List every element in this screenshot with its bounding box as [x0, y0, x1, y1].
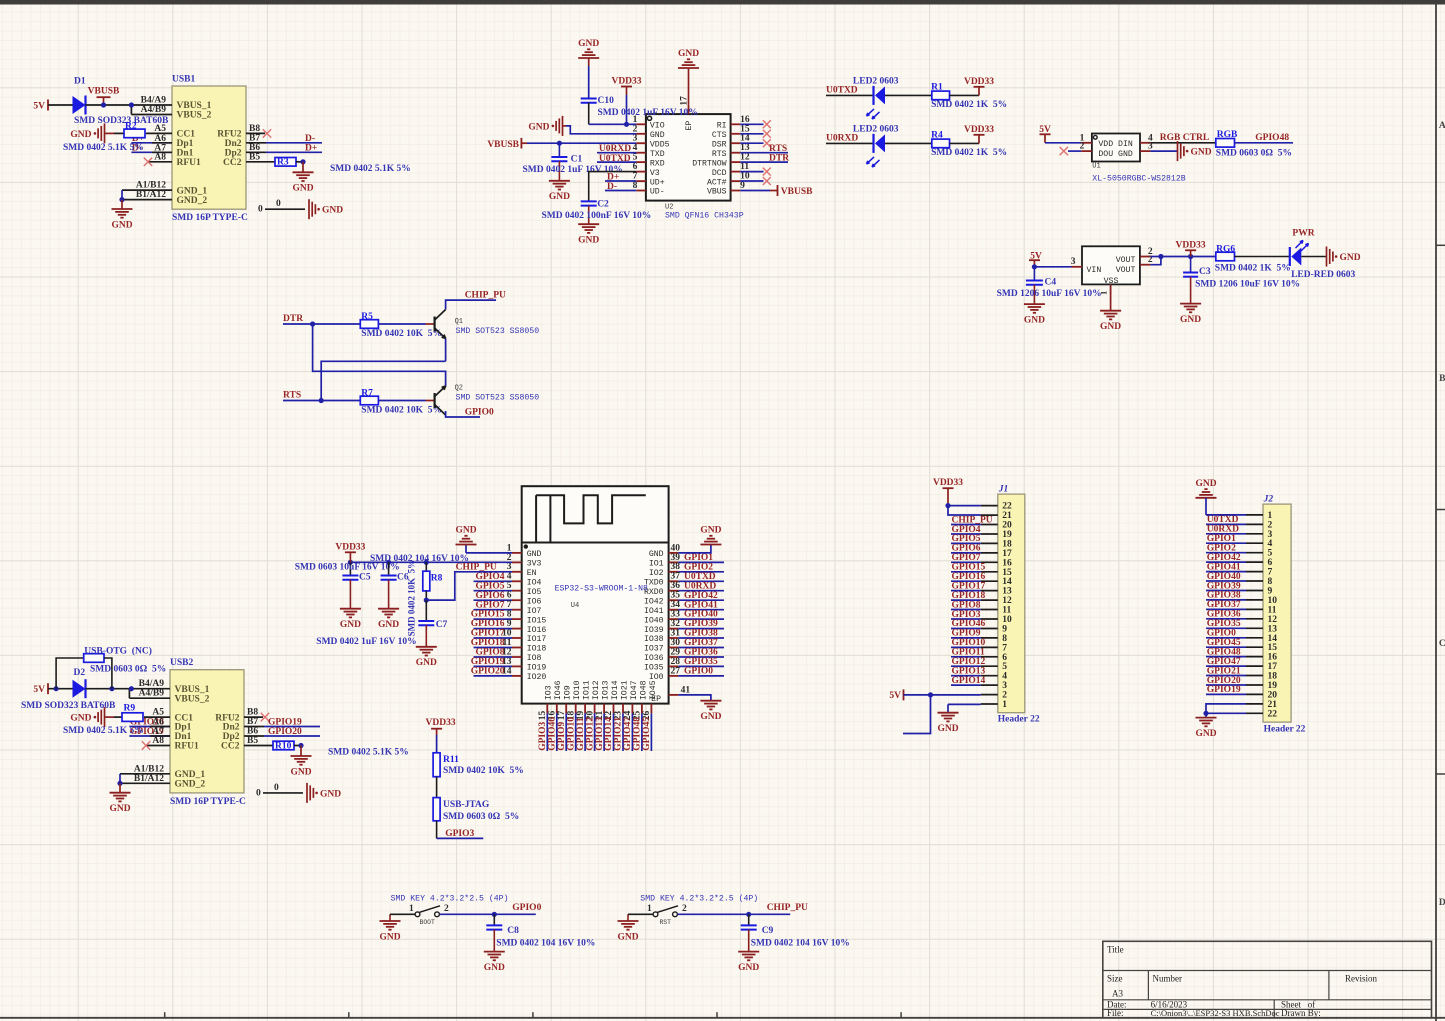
svg-text:1: 1 [507, 543, 512, 553]
svg-text:VDD33: VDD33 [611, 77, 641, 87]
svg-text:LED2 0603: LED2 0603 [853, 124, 899, 134]
svg-text:IO18: IO18 [527, 645, 547, 654]
svg-text:GPIO47: GPIO47 [623, 717, 633, 751]
svg-text:SMD 0402 1K 5%: SMD 0402 1K 5% [1215, 264, 1291, 274]
svg-text:SMD SOT523 SS8050: SMD SOT523 SS8050 [456, 327, 540, 336]
svg-text:9: 9 [740, 181, 745, 191]
svg-text:0: 0 [276, 199, 281, 209]
svg-text:GPIO48: GPIO48 [1255, 133, 1289, 143]
svg-text:SMD 0402 1K 5%: SMD 0402 1K 5% [931, 100, 1007, 110]
svg-text:GPIO15: GPIO15 [471, 610, 505, 620]
svg-text:A6: A6 [154, 134, 166, 144]
svg-text:GPIO42: GPIO42 [684, 591, 718, 601]
svg-text:0: 0 [256, 788, 261, 798]
svg-text:A4/B9: A4/B9 [139, 689, 165, 699]
svg-text:GND_2: GND_2 [177, 196, 208, 206]
svg-text:GPIO20: GPIO20 [471, 667, 505, 677]
svg-text:2: 2 [682, 904, 687, 914]
svg-text:Dn2: Dn2 [223, 723, 240, 733]
svg-text:IO9: IO9 [564, 685, 573, 700]
svg-text:GPIO37: GPIO37 [684, 638, 718, 648]
svg-text:1: 1 [1268, 511, 1273, 521]
svg-text:12: 12 [740, 153, 750, 163]
svg-text:IO19: IO19 [527, 664, 547, 673]
svg-text:GND: GND [1100, 322, 1121, 332]
svg-text:SMD 0603 0Ω 5%: SMD 0603 0Ω 5% [90, 665, 166, 675]
svg-text:GPIO9: GPIO9 [557, 722, 567, 751]
svg-text:IO11: IO11 [583, 680, 592, 700]
svg-text:SMD SOD323 BAT60B: SMD SOD323 BAT60B [21, 701, 116, 711]
svg-text:B1/A12: B1/A12 [136, 190, 166, 200]
svg-text:IO39: IO39 [644, 626, 664, 635]
svg-text:1: 1 [409, 904, 414, 914]
svg-text:GPIO0: GPIO0 [684, 667, 713, 677]
svg-text:GND: GND [378, 620, 399, 630]
svg-text:SMD QFN16 CH343P: SMD QFN16 CH343P [665, 212, 744, 221]
svg-text:GPIO19: GPIO19 [1207, 685, 1241, 695]
svg-text:ACT#: ACT# [707, 178, 727, 187]
svg-text:J2: J2 [1263, 495, 1274, 505]
svg-text:22: 22 [1002, 502, 1012, 512]
svg-text:5V: 5V [33, 685, 45, 695]
svg-text:B7: B7 [247, 717, 258, 727]
svg-text:GND: GND [1340, 253, 1361, 263]
svg-text:Dp1: Dp1 [177, 139, 194, 149]
svg-text:11: 11 [1002, 606, 1011, 616]
svg-text:Number: Number [1153, 974, 1183, 984]
svg-text:XL-5050RGBC-WS2812B: XL-5050RGBC-WS2812B [1092, 175, 1185, 184]
svg-text:SMD KEY 4.2*3.2*2.5 (4P): SMD KEY 4.2*3.2*2.5 (4P) [640, 894, 758, 904]
svg-text:RFU1: RFU1 [177, 158, 202, 168]
svg-text:CHIP_PU: CHIP_PU [465, 291, 506, 301]
svg-text:U0TXD: U0TXD [1207, 515, 1239, 525]
svg-text:VBUS_2: VBUS_2 [177, 111, 212, 121]
svg-text:22: 22 [1268, 709, 1278, 719]
svg-text:CC2: CC2 [223, 158, 242, 168]
svg-text:11: 11 [740, 162, 749, 172]
svg-text:RXD: RXD [650, 159, 665, 168]
svg-text:BOOT: BOOT [420, 919, 436, 926]
svg-text:C3: C3 [1199, 267, 1211, 277]
svg-text:IO8: IO8 [527, 654, 542, 663]
svg-text:13: 13 [1268, 624, 1278, 634]
svg-text:GPIO8: GPIO8 [952, 600, 981, 610]
svg-text:GPIO14: GPIO14 [952, 676, 986, 686]
svg-text:TXD: TXD [650, 150, 665, 159]
svg-text:8: 8 [633, 181, 638, 191]
svg-text:33: 33 [671, 610, 681, 620]
svg-text:GPIO0: GPIO0 [1207, 629, 1236, 639]
svg-text:3: 3 [1002, 681, 1007, 691]
svg-text:2: 2 [1080, 142, 1085, 152]
svg-text:GND: GND [678, 49, 699, 59]
svg-text:8: 8 [507, 610, 512, 620]
svg-text:SMD 0402 1uF 16V 10%: SMD 0402 1uF 16V 10% [598, 108, 698, 118]
svg-text:3: 3 [507, 562, 512, 572]
svg-text:SMD 0402 5.1K 5%: SMD 0402 5.1K 5% [328, 748, 409, 758]
svg-text:GND: GND [700, 712, 721, 722]
svg-text:RGB CTRL: RGB CTRL [1160, 133, 1209, 143]
svg-text:5: 5 [633, 153, 638, 163]
svg-text:CHIP_PU: CHIP_PU [952, 515, 993, 525]
svg-text:GPIO14: GPIO14 [604, 717, 614, 751]
svg-text:VBUSB: VBUSB [487, 140, 519, 150]
svg-text:31: 31 [671, 628, 681, 638]
svg-text:D+: D+ [305, 143, 317, 153]
svg-text:DTR: DTR [283, 314, 303, 324]
svg-text:14: 14 [740, 134, 750, 144]
svg-text:VIO: VIO [650, 122, 665, 131]
svg-text:B4/A9: B4/A9 [141, 96, 167, 106]
svg-text:GPIO21: GPIO21 [1207, 666, 1241, 676]
svg-text:A3: A3 [1112, 989, 1123, 999]
svg-text:38: 38 [671, 562, 681, 572]
svg-text:B4/A9: B4/A9 [139, 679, 165, 689]
svg-text:16: 16 [740, 115, 750, 125]
svg-text:GPIO2: GPIO2 [684, 562, 713, 572]
svg-text:USB-OTG (NC): USB-OTG (NC) [84, 646, 152, 657]
svg-text:17: 17 [557, 711, 567, 721]
svg-text:VBUSB: VBUSB [781, 187, 813, 197]
svg-text:2: 2 [444, 904, 449, 914]
svg-text:B: B [1439, 374, 1445, 384]
svg-text:RI: RI [717, 122, 727, 131]
svg-text:C9: C9 [762, 926, 774, 936]
svg-text:35: 35 [671, 591, 681, 601]
svg-text:SMD KEY 4.2*3.2*2.5 (4P): SMD KEY 4.2*3.2*2.5 (4P) [391, 894, 509, 904]
svg-text:SMD SOT523 SS8050: SMD SOT523 SS8050 [456, 393, 540, 402]
svg-text:GND: GND [1180, 315, 1201, 325]
svg-text:Dn1: Dn1 [175, 732, 192, 742]
svg-text:Header 22: Header 22 [1264, 725, 1306, 735]
svg-text:GND: GND [578, 236, 599, 246]
svg-text:SMD 1206 10uF 16V 10%: SMD 1206 10uF 16V 10% [997, 289, 1102, 299]
svg-text:SMD 0402 104 16V 10%: SMD 0402 104 16V 10% [751, 939, 850, 949]
svg-text:SMD 16P TYPE-C: SMD 16P TYPE-C [172, 213, 248, 223]
svg-text:GND: GND [738, 963, 759, 973]
svg-text:GND: GND [320, 789, 341, 799]
svg-text:IO47: IO47 [630, 680, 639, 700]
svg-text:B6: B6 [249, 143, 260, 153]
svg-text:C: C [1439, 639, 1445, 649]
svg-text:SMD 0402 5.1K 5%: SMD 0402 5.1K 5% [63, 726, 144, 736]
svg-text:SMD 16P TYPE-C: SMD 16P TYPE-C [170, 797, 246, 807]
svg-text:GND: GND [1024, 315, 1045, 325]
svg-text:GND_1: GND_1 [177, 186, 208, 196]
svg-text:SMD 0603 0Ω 5%: SMD 0603 0Ω 5% [1216, 149, 1292, 159]
svg-text:IO48: IO48 [639, 680, 648, 700]
svg-text:41: 41 [681, 685, 691, 695]
svg-text:VDD5: VDD5 [650, 140, 670, 149]
svg-text:U2: U2 [665, 204, 673, 212]
svg-text:Q2: Q2 [455, 384, 463, 392]
svg-text:GND: GND [292, 184, 313, 194]
svg-text:GND: GND [455, 526, 476, 536]
svg-text:IO7: IO7 [527, 607, 542, 616]
svg-text:3V3: 3V3 [527, 560, 542, 569]
svg-text:SMD 0402 10K 5%: SMD 0402 10K 5% [361, 329, 442, 339]
svg-text:18: 18 [1002, 539, 1012, 549]
svg-text:VOUT: VOUT [1116, 266, 1136, 275]
svg-text:SMD 1206 10uF 16V 10%: SMD 1206 10uF 16V 10% [1195, 279, 1300, 289]
svg-text:20: 20 [1268, 690, 1278, 700]
svg-text:10: 10 [1268, 596, 1278, 606]
svg-text:1: 1 [647, 904, 652, 914]
svg-text:RG6: RG6 [1216, 244, 1235, 254]
svg-text:IO17: IO17 [527, 635, 547, 644]
svg-text:A8: A8 [152, 736, 164, 746]
svg-text:GND: GND [290, 767, 311, 777]
svg-text:IO16: IO16 [527, 626, 547, 635]
svg-text:GND: GND [1191, 148, 1212, 158]
svg-text:3: 3 [1148, 142, 1153, 152]
svg-text:12: 12 [1268, 615, 1278, 625]
svg-text:IO10: IO10 [573, 680, 582, 700]
svg-text:IO35: IO35 [644, 664, 664, 673]
svg-text:SMD 0402 104 16V 10%: SMD 0402 104 16V 10% [496, 939, 595, 949]
svg-text:GPIO35: GPIO35 [684, 657, 718, 667]
svg-text:DOU GND: DOU GND [1098, 150, 1132, 159]
svg-text:5: 5 [1002, 662, 1007, 672]
svg-text:R4: R4 [931, 131, 943, 141]
svg-text:IO12: IO12 [592, 680, 601, 700]
svg-text:A5: A5 [152, 708, 164, 718]
svg-text:Size: Size [1107, 974, 1123, 984]
svg-text:R5: R5 [361, 312, 373, 322]
svg-text:GND: GND [1195, 729, 1216, 739]
svg-text:R11: R11 [443, 755, 459, 765]
svg-text:A7: A7 [152, 727, 164, 737]
svg-text:GND: GND [322, 206, 343, 216]
svg-text:RFU1: RFU1 [175, 742, 200, 752]
svg-text:IO5: IO5 [527, 588, 542, 597]
svg-text:VDD33: VDD33 [964, 125, 994, 135]
svg-text:R7: R7 [361, 388, 373, 398]
svg-text:CTS: CTS [712, 131, 727, 140]
svg-text:GPIO11: GPIO11 [576, 717, 586, 751]
svg-text:IO15: IO15 [527, 616, 547, 625]
svg-text:SMD 0402 5.1K 5%: SMD 0402 5.1K 5% [330, 164, 411, 174]
svg-text:27: 27 [671, 666, 681, 676]
svg-text:SMD 0402 1K 5%: SMD 0402 1K 5% [931, 148, 1007, 158]
svg-text:R3: R3 [277, 158, 289, 168]
svg-text:U0TXD: U0TXD [826, 86, 858, 96]
svg-text:GND: GND [937, 724, 958, 734]
svg-text:16: 16 [1268, 653, 1278, 663]
svg-text:8: 8 [1002, 634, 1007, 644]
svg-text:C7: C7 [436, 620, 448, 630]
svg-text:GPIO3: GPIO3 [445, 829, 474, 839]
svg-text:GPIO40: GPIO40 [1207, 572, 1241, 582]
svg-text:SMD SOD323 BAT60B: SMD SOD323 BAT60B [74, 116, 169, 126]
svg-text:VDD33: VDD33 [1176, 241, 1206, 251]
svg-text:A1/B12: A1/B12 [134, 764, 164, 774]
svg-text:VBUS_1: VBUS_1 [175, 685, 210, 695]
svg-text:C:\Onion3\..\ESP32-S3 HXB.SchD: C:\Onion3\..\ESP32-S3 HXB.SchDoc [1151, 1008, 1280, 1018]
svg-text:C5: C5 [359, 573, 371, 583]
svg-text:DSR: DSR [712, 140, 727, 149]
svg-text:GPIO6: GPIO6 [952, 544, 981, 554]
svg-text:GND: GND [549, 192, 570, 202]
svg-text:Drawn By:: Drawn By: [1281, 1008, 1321, 1018]
svg-text:36: 36 [671, 581, 681, 591]
svg-text:6: 6 [633, 162, 638, 172]
svg-text:6: 6 [1268, 558, 1273, 568]
svg-text:IO37: IO37 [644, 645, 664, 654]
svg-text:GPIO40: GPIO40 [684, 610, 718, 620]
svg-text:SMD 0402 1uF 16V 10%: SMD 0402 1uF 16V 10% [316, 637, 416, 647]
svg-text:VBUSB: VBUSB [88, 87, 120, 97]
svg-text:SMD 0402 10K 5%: SMD 0402 10K 5% [361, 406, 442, 416]
svg-text:VDD33: VDD33 [933, 478, 963, 488]
svg-text:3: 3 [1071, 257, 1076, 267]
svg-text:IO6: IO6 [527, 597, 542, 606]
svg-text:1: 1 [1099, 291, 1109, 295]
svg-text:V3: V3 [650, 169, 660, 178]
svg-text:GPIO42: GPIO42 [1207, 553, 1241, 563]
svg-text:IO40: IO40 [644, 616, 664, 625]
svg-text:13: 13 [1002, 587, 1012, 597]
svg-text:R10: R10 [275, 741, 292, 751]
svg-text:IO1: IO1 [649, 560, 664, 569]
svg-text:RTS: RTS [712, 150, 727, 159]
svg-text:28: 28 [671, 657, 681, 667]
svg-text:6: 6 [507, 591, 512, 601]
svg-text:R1: R1 [931, 83, 943, 93]
svg-text:GND: GND [379, 932, 400, 942]
svg-text:5V: 5V [33, 102, 45, 112]
svg-text:GND: GND [340, 620, 361, 630]
svg-text:40: 40 [671, 543, 681, 553]
svg-text:IO4: IO4 [527, 579, 542, 588]
svg-text:IO14: IO14 [611, 680, 620, 700]
svg-text:GND: GND [1195, 479, 1216, 489]
svg-text:Q1: Q1 [455, 318, 463, 326]
svg-text:U4: U4 [571, 602, 579, 610]
svg-text:UD-: UD- [650, 188, 665, 197]
svg-text:A: A [1439, 121, 1445, 131]
svg-text:D2: D2 [74, 668, 86, 678]
svg-text:GPIO6: GPIO6 [475, 591, 504, 601]
svg-text:IO41: IO41 [644, 607, 664, 616]
svg-text:RST: RST [659, 919, 671, 926]
svg-text:VDD33: VDD33 [964, 77, 994, 87]
svg-text:IO21: IO21 [620, 680, 629, 700]
svg-text:VDD33: VDD33 [426, 718, 456, 728]
svg-text:LED-RED 0603: LED-RED 0603 [1291, 270, 1355, 280]
svg-text:GPIO36: GPIO36 [1207, 610, 1241, 620]
svg-text:File:: File: [1107, 1008, 1124, 1018]
svg-text:Dp1: Dp1 [175, 723, 192, 733]
svg-text:5V: 5V [889, 691, 901, 701]
svg-text:A8: A8 [154, 152, 166, 162]
svg-text:18: 18 [1268, 672, 1278, 682]
svg-text:J1: J1 [998, 485, 1009, 495]
svg-text:GPIO19: GPIO19 [471, 657, 505, 667]
svg-text:IO38: IO38 [644, 635, 664, 644]
svg-text:GND_1: GND_1 [175, 770, 206, 780]
svg-text:D1: D1 [74, 77, 86, 87]
svg-text:Dp2: Dp2 [223, 732, 240, 742]
svg-text:U0RXD: U0RXD [826, 134, 858, 144]
svg-text:GND: GND [416, 658, 437, 668]
svg-text:GND: GND [109, 804, 130, 814]
svg-text:C8: C8 [507, 926, 519, 936]
svg-text:Dn2: Dn2 [225, 139, 242, 149]
svg-text:GPIO48: GPIO48 [633, 717, 643, 751]
svg-text:RGB: RGB [1217, 130, 1238, 140]
svg-text:GND: GND [649, 550, 664, 559]
svg-text:GPIO18: GPIO18 [471, 638, 505, 648]
svg-text:IO3: IO3 [545, 685, 554, 700]
svg-text:SMD 0603 10uF 16V 10%: SMD 0603 10uF 16V 10% [295, 562, 400, 572]
svg-text:GND: GND [528, 122, 549, 132]
svg-text:1: 1 [1002, 700, 1007, 710]
svg-text:GPIO12: GPIO12 [585, 717, 595, 751]
svg-text:GPIO3: GPIO3 [538, 722, 548, 751]
svg-text:USB-JTAG: USB-JTAG [443, 800, 490, 810]
svg-text:IO20: IO20 [527, 673, 547, 682]
svg-text:SMD 0402 100nF 16V 10%: SMD 0402 100nF 16V 10% [542, 211, 652, 221]
svg-text:GPIO0: GPIO0 [512, 903, 541, 913]
svg-text:D-: D- [305, 134, 315, 144]
svg-text:B6: B6 [247, 727, 258, 737]
svg-text:5: 5 [507, 581, 512, 591]
svg-text:USB2: USB2 [170, 658, 193, 668]
svg-text:IO45: IO45 [649, 680, 658, 700]
svg-text:IO36: IO36 [644, 654, 664, 663]
svg-text:IO46: IO46 [554, 680, 563, 700]
svg-text:TXD0: TXD0 [644, 579, 664, 588]
svg-text:USB1: USB1 [172, 75, 195, 85]
svg-text:A4/B9: A4/B9 [141, 105, 167, 115]
svg-text:EN: EN [527, 569, 537, 578]
svg-text:GPIO45: GPIO45 [642, 717, 652, 751]
svg-text:C2: C2 [597, 200, 609, 210]
svg-text:SMD 0603 0Ω 5%: SMD 0603 0Ω 5% [443, 812, 519, 822]
svg-text:LED2 0603: LED2 0603 [853, 76, 899, 86]
svg-text:GPIO12: GPIO12 [952, 657, 986, 667]
svg-text:Dn1: Dn1 [177, 149, 194, 159]
svg-text:0: 0 [258, 205, 263, 215]
svg-text:VBUS_1: VBUS_1 [177, 101, 212, 111]
svg-text:GPIO1: GPIO1 [1207, 534, 1236, 544]
svg-text:GPIO15: GPIO15 [952, 563, 986, 573]
svg-text:GND: GND [70, 130, 91, 140]
svg-text:PWR: PWR [1292, 229, 1314, 239]
svg-text:IO2: IO2 [649, 569, 664, 578]
svg-text:GPIO46: GPIO46 [952, 619, 986, 629]
svg-text:Title: Title [1107, 945, 1124, 955]
svg-text:RXD0: RXD0 [644, 588, 664, 597]
svg-text:R2: R2 [125, 121, 137, 131]
svg-text:C10: C10 [598, 96, 615, 106]
svg-text:R8: R8 [431, 573, 443, 583]
svg-text:SMD 0402 10K 5%: SMD 0402 10K 5% [443, 766, 524, 776]
svg-text:Header 22: Header 22 [998, 715, 1040, 725]
svg-text:VOUT: VOUT [1116, 256, 1136, 265]
svg-text:GND: GND [111, 220, 132, 230]
svg-text:GPIO17: GPIO17 [952, 581, 986, 591]
svg-text:SMD 0402 10K 5%: SMD 0402 10K 5% [407, 560, 417, 637]
svg-text:3: 3 [633, 134, 638, 144]
svg-text:GPIO48: GPIO48 [1207, 647, 1241, 657]
svg-text:VDD DIN: VDD DIN [1098, 140, 1132, 149]
svg-text:B5: B5 [249, 152, 260, 162]
svg-text:GND: GND [650, 131, 665, 140]
svg-text:GPIO17: GPIO17 [471, 629, 505, 639]
svg-text:GPIO38: GPIO38 [1207, 591, 1241, 601]
